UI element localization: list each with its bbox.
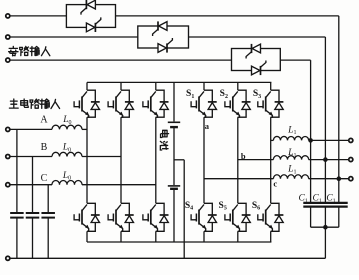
wire C1c bottom lead (338, 207, 340, 227)
junction C1 common (323, 225, 328, 230)
transistor rectifier top cell 2 (IGBT+diode) (108, 90, 134, 117)
wire rectifier leg3 mid (155, 117, 157, 203)
junction row1/bypass3 (308, 138, 313, 143)
svg-text:S6: S6 (252, 201, 260, 212)
wire C1a bottom lead (310, 207, 312, 227)
svg-text:S3: S3 (253, 89, 261, 100)
inductor L1 row2 (273, 156, 308, 160)
wire neutral rail (10, 257, 326, 259)
wire row3 from S1 leg (204, 178, 273, 180)
wire rectifier leg1 mid (86, 117, 88, 203)
wire bypass3 vertical down (310, 60, 312, 203)
wire cap B to neutral (32, 218, 34, 258)
label 旁路输入 (bypass input) (9, 46, 18, 55)
svg-text:C: C (41, 173, 48, 184)
inductor L1 row3 (273, 175, 308, 179)
terminal bypass phase 2 (6, 35, 10, 39)
wire DC link lower (173, 189, 175, 242)
svg-text:S2: S2 (220, 89, 228, 100)
wire bypass3 left (10, 59, 232, 61)
svg-text:S5: S5 (219, 201, 227, 212)
terminal phase B (6, 154, 10, 158)
svg-text:a: a (205, 121, 210, 131)
wire bypass2 right (189, 36, 326, 38)
svg-text:L0: L0 (62, 115, 71, 126)
wire inverter leg3 mid (270, 117, 272, 203)
label 主电路输入 (main circuit input) (9, 99, 18, 108)
wire stub top inverter leg2 (237, 82, 239, 90)
wire bypass2 left (10, 36, 138, 38)
capacitor input filter B (26, 213, 40, 218)
transistor S6 (IGBT+diode) (258, 203, 284, 231)
terminal phase A (6, 127, 10, 131)
wire row2 to terminal (309, 159, 349, 161)
terminal output 2 (349, 158, 353, 162)
wire DC+ top rail (87, 81, 271, 83)
wire DC link middle (173, 127, 175, 185)
wire phase B left (10, 156, 52, 158)
junction row2/bypass2 (323, 157, 328, 162)
wire stub bottom rectifier leg1 (86, 231, 88, 242)
transistor rectifier bottom cell 2 (IGBT+diode) (108, 203, 134, 231)
wire bypass2 vertical down (324, 37, 326, 203)
battery cell lower (168, 186, 180, 189)
battery cell upper (168, 122, 180, 127)
wire row1 to terminal (309, 139, 349, 141)
inductor L0 phase A (52, 125, 82, 129)
wire phase A to leg1 (82, 128, 87, 130)
wire stub top inverter leg3 (270, 82, 272, 90)
thyristor VT3a (top, box3) (246, 44, 260, 59)
wire phase B to leg2 (82, 156, 121, 158)
wire stub bottom rectifier leg3 (155, 231, 157, 242)
transistor S3 (IGBT+diode) (258, 90, 284, 117)
wire inverter leg2 mid (237, 117, 239, 203)
terminal output 1 (349, 138, 353, 142)
inductor L1 row1 (273, 136, 308, 140)
inductor L0 phase B (52, 152, 82, 156)
terminal output 3 (349, 177, 353, 181)
bypass SCR module 2 box (138, 26, 189, 48)
bypass SCR module 1 box (66, 5, 115, 28)
wire cap branch A down (16, 129, 18, 212)
thyristor VT3b (bottom, box3) (252, 61, 266, 76)
wire cap C to neutral (47, 218, 49, 258)
terminal neutral (6, 256, 10, 260)
wire stub bottom rectifier leg2 (120, 231, 122, 242)
transistor rectifier bottom cell 1 (IGBT+diode) (74, 203, 100, 231)
capacitor input filter A (10, 213, 24, 218)
capacitor bank C1 plates (303, 203, 347, 207)
wire bypass1 vertical down (338, 16, 340, 203)
wire DC midpoint tap (174, 159, 184, 161)
wire stub bottom inverter leg2 (237, 231, 239, 242)
wire stub bottom inverter leg1 (203, 231, 205, 242)
wire cap A to neutral (16, 218, 18, 258)
terminal bypass phase 3 (6, 58, 10, 62)
wire row2 from S2 leg (238, 159, 274, 161)
transistor rectifier top cell 1 (IGBT+diode) (74, 90, 100, 117)
wire stub top rectifier leg2 (120, 82, 122, 90)
bypass SCR module 3 box (232, 49, 281, 71)
thyristor VT2a (top, box2) (153, 21, 167, 36)
transistor rectifier top cell 3 (IGBT+diode) (143, 90, 169, 117)
terminal bypass phase 1 (6, 14, 10, 18)
svg-text:c: c (273, 179, 277, 189)
wire bypass3 right (280, 59, 310, 61)
svg-text:L1: L1 (287, 125, 296, 136)
svg-text:B: B (41, 142, 48, 153)
wire stub bottom inverter leg3 (270, 231, 272, 242)
wire stub top rectifier leg3 (155, 82, 157, 90)
wire stub top inverter leg1 (203, 82, 205, 90)
wire stub top rectifier leg1 (86, 82, 88, 90)
wire row1 from S3 leg (271, 139, 274, 141)
wire tap down to neutral (183, 160, 185, 258)
wire phase A left (10, 128, 52, 130)
wire phase C to leg3 (82, 184, 156, 186)
wire phase C left (10, 184, 52, 186)
transistor S2 (IGBT+diode) (225, 90, 251, 117)
svg-text:S4: S4 (185, 201, 193, 212)
transistor S5 (IGBT+diode) (225, 203, 251, 231)
thyristor VT2b (bottom, box2) (158, 38, 172, 53)
inductor L0 phase C (52, 181, 82, 185)
wire C1 common bar (311, 226, 339, 228)
transistor S4 (IGBT+diode) (191, 203, 217, 231)
transistor rectifier bottom cell 3 (IGBT+diode) (143, 203, 169, 231)
svg-text:L1: L1 (287, 165, 296, 176)
junction row3/bypass1 (337, 176, 342, 181)
wire DC- bottom rail (87, 241, 271, 243)
terminal phase C (6, 183, 10, 187)
wire cap branch C down (47, 185, 49, 213)
wire rectifier leg2 mid (120, 117, 122, 203)
wire C1b bottom lead (324, 207, 326, 227)
wire bypass1 left (10, 15, 67, 17)
wire inverter leg1 mid (203, 117, 205, 203)
label 电池 (battery) (161, 130, 169, 137)
wire C1 common to neutral (324, 227, 326, 258)
wire row3 to terminal (309, 178, 349, 180)
thyristor VT1b (bottom, box1) (86, 17, 100, 32)
thyristor VT1a (top, box1) (81, 0, 95, 15)
svg-text:S1: S1 (186, 89, 194, 100)
capacitor input filter C (41, 213, 55, 218)
wire cap branch B down (32, 157, 34, 213)
transistor S1 (IGBT+diode) (191, 90, 217, 117)
wire DC link upper (173, 82, 175, 121)
svg-text:A: A (40, 115, 48, 126)
wire bypass1 right (116, 15, 339, 17)
